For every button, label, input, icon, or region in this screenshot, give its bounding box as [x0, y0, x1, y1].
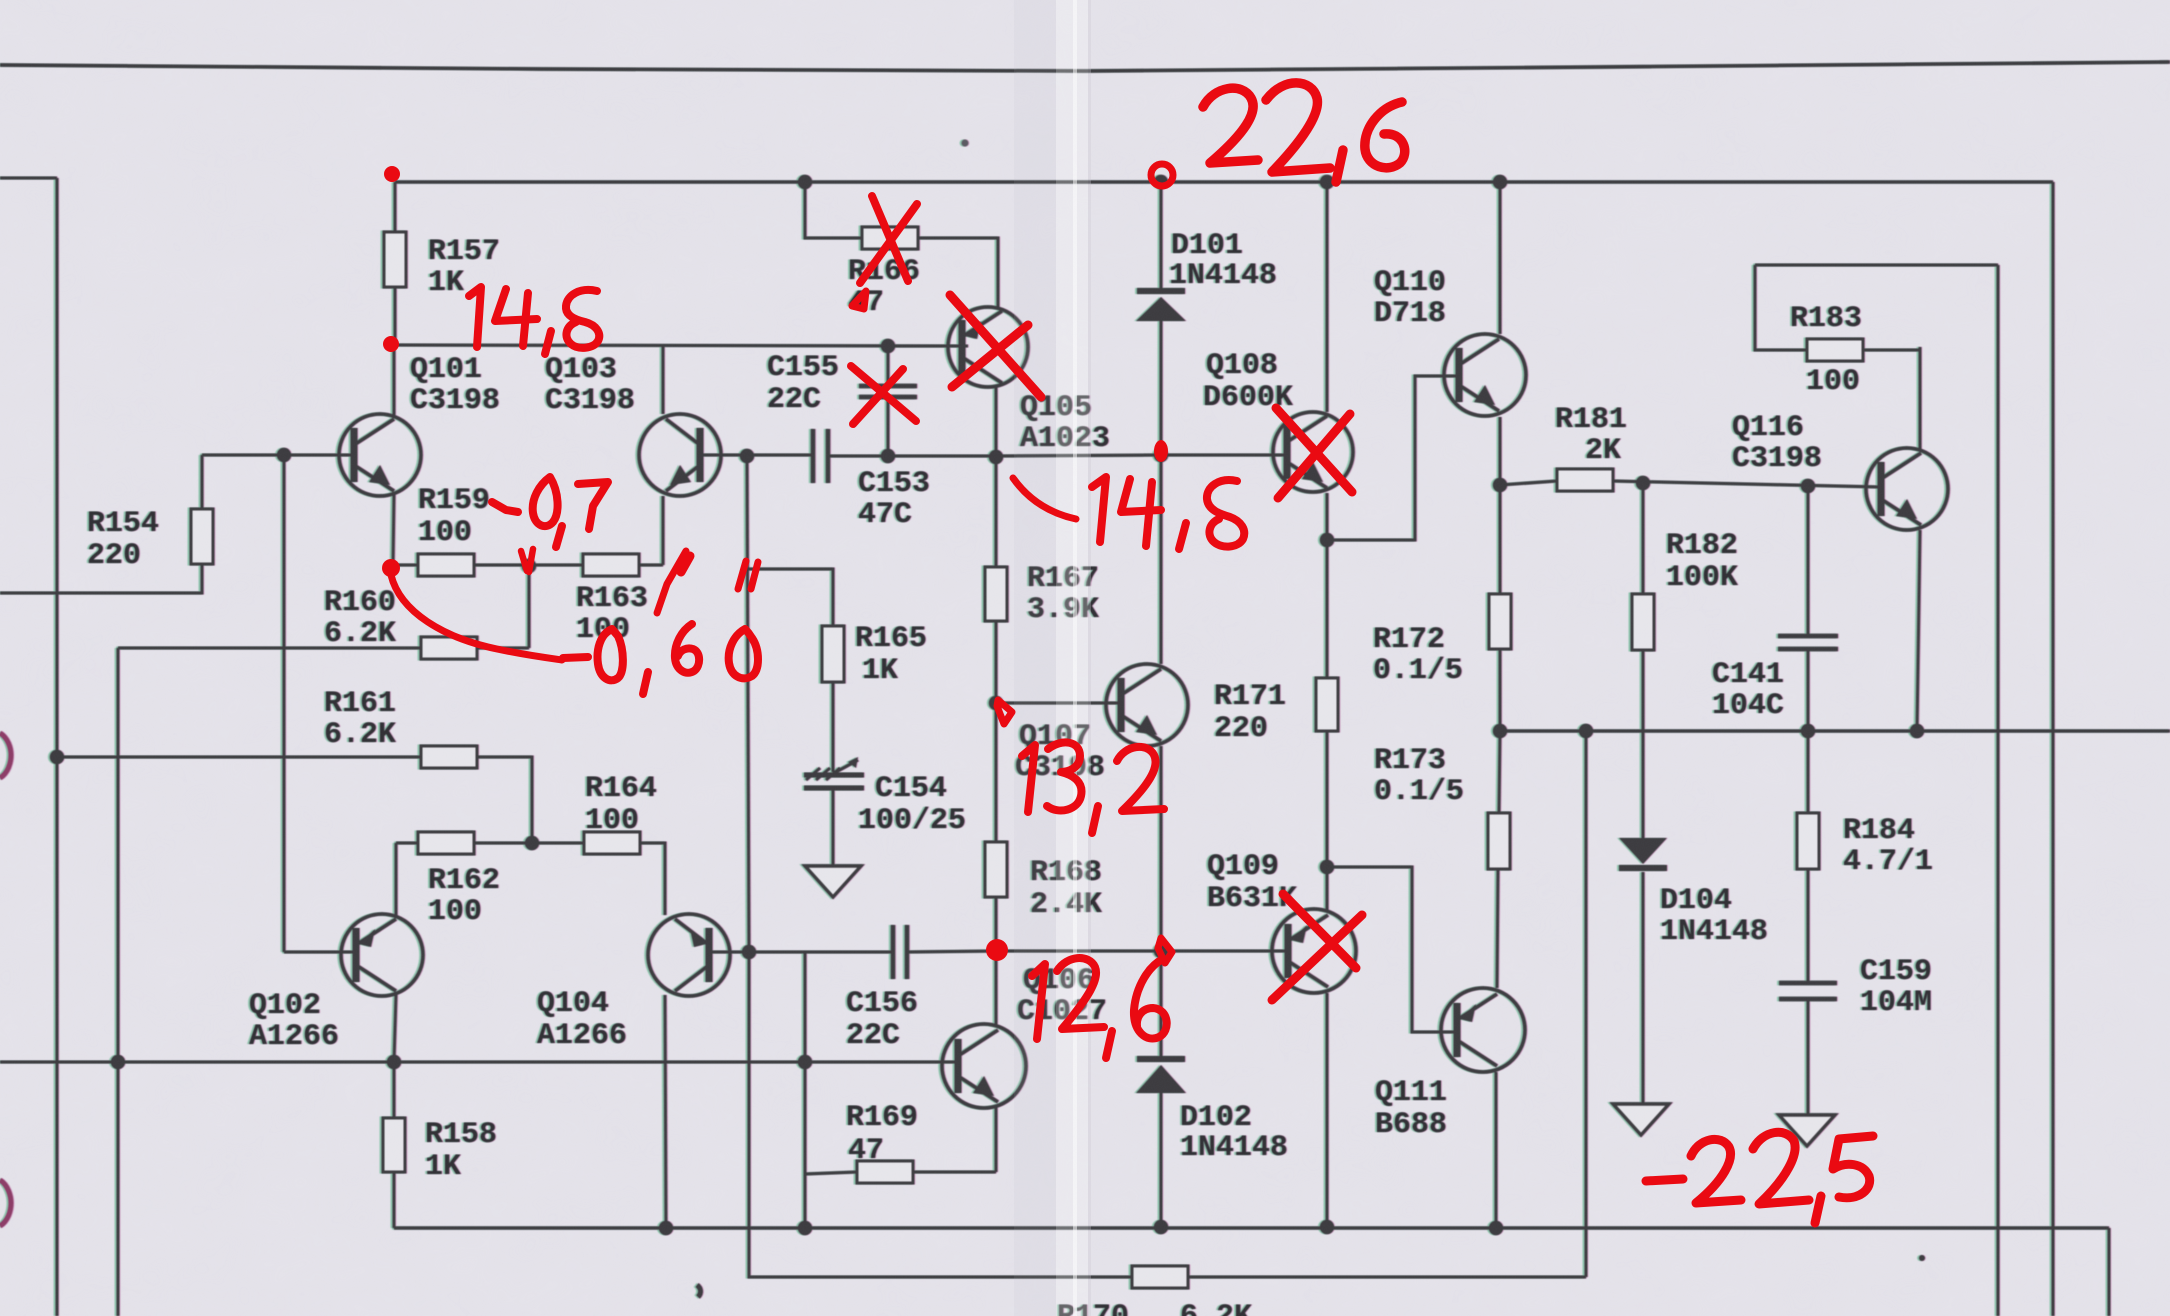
red X over R166	[872, 196, 908, 281]
wire R160 right to riser	[477, 647, 529, 650]
node output to bottom loop	[1579, 724, 1593, 738]
resistor R169	[857, 1161, 913, 1183]
wire Q101 emitter	[393, 495, 394, 565]
ground C159	[1779, 1115, 1835, 1146]
wire R165 branch	[747, 569, 833, 626]
wire R184 to C159	[1807, 869, 1810, 983]
red note 0.7	[533, 477, 558, 526]
wire bottom -22.5V rail	[394, 1226, 2109, 1229]
transistor Q101	[339, 414, 421, 496]
wire D102 anode	[1160, 1093, 1163, 1228]
wire Q101 collector	[393, 345, 396, 415]
wire R171 col	[1326, 540, 1329, 678]
red note -22.5	[1646, 1179, 1683, 1181]
resistor R154	[191, 509, 213, 564]
wire Q116 collector	[1919, 347, 1922, 449]
wire Q108emitter to Q110base link	[1327, 376, 1458, 540]
wire bias line to D102	[996, 950, 1161, 953]
connector arc left edge lower	[0, 1180, 11, 1226]
wire R171 bottom	[1326, 731, 1329, 867]
transistor Q116	[1866, 448, 1948, 530]
red blob Q106 node	[986, 939, 1008, 961]
capacitor C141	[1778, 634, 1838, 639]
wire R163 to Q103 emitter	[639, 564, 663, 567]
resistor R182	[1632, 594, 1654, 650]
wire R167 col top	[995, 457, 998, 567]
wire Q107 emitter	[1160, 746, 1163, 951]
wire Q111 emitter	[1495, 1072, 1498, 1228]
transistor Q108	[1273, 412, 1353, 492]
transistor Q105	[948, 307, 1028, 387]
resistor R167	[985, 567, 1007, 621]
wire R158 top	[393, 1062, 396, 1118]
wire node down to R160	[528, 566, 531, 648]
wire Q107 collector	[1160, 455, 1163, 664]
wire R166 drop	[805, 182, 862, 238]
speck above R166	[962, 140, 969, 147]
wire bias line left	[749, 951, 893, 954]
node R182 top node	[1636, 476, 1650, 490]
transistor Q103	[639, 414, 721, 496]
wire R165 to C154	[832, 682, 835, 772]
wire output rail	[1500, 729, 2170, 732]
red note 13.2	[1022, 745, 1035, 812]
node Q110 emitter node	[1493, 478, 1507, 492]
wire Q102 base line	[284, 951, 356, 954]
wire D104 to ground	[1642, 872, 1645, 1104]
wire R183 line left	[1755, 265, 1807, 350]
node Q110 collector at rail	[1493, 175, 1507, 189]
wire Q105 emitter drop	[995, 387, 998, 456]
resistor R166	[862, 227, 918, 249]
capacitor C153	[811, 429, 816, 483]
red note 12.6	[1032, 964, 1045, 1039]
transistor Q111	[1441, 988, 1525, 1072]
wire signal to Q108 base	[1161, 454, 1286, 457]
resistor R162	[418, 832, 474, 854]
node C155 bottom node	[881, 449, 895, 463]
node Q108 collector at rail	[1320, 175, 1334, 189]
ground D104	[1613, 1104, 1669, 1135]
wire C156 right	[907, 951, 996, 952]
node C141 at output rail	[1801, 724, 1815, 738]
red dot at R157 bottom node	[383, 336, 399, 352]
capacitor C154 electrolytic	[804, 773, 864, 778]
wire Q103-collector line y345	[395, 345, 967, 346]
node x118 at base bus	[111, 1055, 125, 1069]
wire x747 feedback riser	[747, 456, 749, 952]
node Q102 emitter node	[387, 1055, 401, 1069]
wire R169 line right corner	[913, 1171, 996, 1174]
wire R166 to Q105 collector	[918, 238, 998, 307]
wire R169 left corner	[805, 1172, 857, 1174]
node diff emitter node	[522, 559, 536, 573]
node D102 at rail	[1154, 1220, 1168, 1234]
wire R159-R163 emitter line	[393, 564, 418, 567]
wire Q102 collector riser	[395, 843, 398, 917]
wire R170 right	[1188, 1276, 1586, 1279]
red check marks at R163 right	[657, 551, 686, 613]
connector arc left edge upper	[0, 733, 11, 778]
wire R162 to node	[474, 842, 532, 845]
resistor R164	[584, 832, 640, 854]
wire Q105 base line	[888, 345, 968, 348]
node D101 at rail	[1154, 175, 1168, 189]
wire bias to Q109 base	[1161, 950, 1286, 953]
resistor R158	[383, 1118, 405, 1172]
wire D102 column	[1160, 951, 1163, 1056]
red note 22.6 top	[1203, 88, 1258, 163]
wire Q103 collector	[662, 345, 665, 414]
resistor R159	[418, 554, 474, 576]
wire x1586 drop	[1585, 731, 1588, 1277]
red blob D101 anode	[1154, 440, 1168, 462]
red note 14.8 upper-left	[469, 287, 481, 347]
wire x57 vertical	[56, 178, 59, 1316]
ground C154	[805, 866, 861, 897]
wire Q108 emitter	[1326, 493, 1329, 540]
wire R161 line	[57, 756, 421, 759]
wire D101 anode	[1160, 321, 1163, 455]
node Q111 at rail	[1489, 1221, 1503, 1235]
transistor Q106	[942, 1024, 1026, 1108]
wire rail to R157 drop	[394, 182, 397, 232]
wire Q109 collector	[1326, 867, 1329, 910]
resistor R172	[1489, 594, 1511, 649]
red tick marks at node 530	[521, 549, 533, 572]
wire R170 feedback line	[749, 952, 1132, 1277]
node Q108 emitter node	[1320, 533, 1334, 547]
red dot at R157 top node	[384, 166, 400, 182]
wire C154 to ground	[832, 788, 835, 866]
wire R154 top riser	[201, 455, 204, 509]
wire x118 riser	[117, 648, 120, 1316]
node Q104 base node	[742, 945, 756, 959]
wire top border line	[0, 62, 2170, 71]
wire R181 to Q116 base	[1613, 481, 1880, 487]
transistor Q110	[1444, 334, 1526, 416]
wire R173 col top	[1499, 731, 1500, 813]
wire R181 line left	[1500, 481, 1557, 485]
wire Q111 base stair	[1327, 867, 1456, 1032]
wire Q106 collector	[995, 951, 998, 1025]
node feedback node C153	[740, 449, 754, 463]
wire R157 bottom	[394, 287, 397, 345]
red hash marks x747	[738, 561, 758, 589]
capacitor C155	[859, 384, 917, 389]
wire Q102 emitter	[394, 995, 396, 1062]
wire R182 col top	[1642, 483, 1645, 594]
red ring at rail node	[1151, 164, 1173, 186]
resistor R163	[583, 554, 639, 576]
wire Q116 emitter	[1917, 530, 1920, 731]
transistor Q104	[648, 914, 730, 996]
node D102 top node	[1154, 944, 1168, 958]
wire Q107 base line	[996, 702, 1120, 705]
node D101 anode node	[1154, 448, 1168, 462]
wire C141 bottom	[1807, 649, 1810, 731]
wire R172 col top	[1499, 485, 1502, 594]
red pointer dash R159	[492, 502, 518, 512]
diode D102	[1137, 1056, 1185, 1062]
wire C159 to ground	[1807, 999, 1810, 1115]
resistor R184	[1797, 813, 1819, 869]
node Q107 base node	[989, 696, 1003, 710]
red X over Q108	[1276, 408, 1352, 492]
wire R158 bottom corner	[393, 1172, 396, 1228]
red note 14.8 middle	[1092, 477, 1106, 542]
wire R182 to D104	[1642, 650, 1645, 838]
wire signal to D101 node	[996, 455, 1161, 456]
node C155 top node	[881, 339, 895, 353]
node V+ at R166 drop	[798, 175, 812, 189]
wire Q104 base line	[712, 951, 749, 954]
red X over C155	[851, 366, 916, 421]
wire R160 line	[118, 647, 421, 650]
wire Q104 emitter	[665, 995, 666, 1228]
wire R172 bottom	[1499, 649, 1502, 731]
wire Q103 base	[697, 454, 747, 457]
resistor R170	[1132, 1266, 1188, 1288]
red note -0.60	[563, 657, 588, 658]
wire node to R164	[532, 842, 584, 845]
wire Q103 emitter	[662, 496, 665, 565]
diode D101	[1137, 288, 1185, 294]
red arrow at Q107 base	[997, 700, 1012, 724]
wire R167 bottom	[995, 621, 998, 703]
wire left feed corner	[0, 177, 57, 180]
resistor R181	[1557, 469, 1613, 491]
capacitor C156	[891, 925, 896, 979]
wire R183 right corner	[1863, 349, 1920, 352]
transistor Q102	[341, 914, 423, 996]
node Q116 emitter at rail	[1910, 724, 1924, 738]
node Q101 base junction	[277, 448, 291, 462]
wire Q106 emitter	[995, 1107, 998, 1172]
wire C155 lower	[887, 397, 890, 456]
resistor R161	[421, 746, 477, 768]
resistor R183	[1807, 339, 1863, 361]
resistor R157	[384, 232, 406, 287]
wire Q109 emitter	[1326, 993, 1329, 1228]
paper fold crease	[1014, 0, 1056, 1316]
wire Q108 collector	[1326, 182, 1329, 412]
wire R164 right corner	[640, 843, 665, 915]
capacitor C159	[1779, 981, 1837, 986]
wire R162 line left	[396, 842, 418, 845]
node C141 top node	[1801, 479, 1815, 493]
node Q109 collector node	[1320, 860, 1334, 874]
wire R159 to node	[474, 564, 583, 567]
wire input riser x285	[283, 455, 286, 952]
wire base bus y1062	[0, 1061, 957, 1064]
resistor R173	[1488, 813, 1510, 869]
wire bottom rail right corner	[2108, 1228, 2111, 1316]
red pointer to 14.8 mid	[1013, 478, 1076, 519]
wire C156 left drop	[804, 952, 807, 1228]
wire C155 riser	[887, 346, 890, 386]
transistor Q109	[1272, 909, 1356, 993]
red blob D102 node	[1158, 938, 1172, 963]
wire signal line C153 left	[747, 454, 813, 457]
wire V+ right corner	[2052, 182, 2055, 1316]
resistor R171	[1316, 678, 1338, 731]
wire Q101 base line	[202, 454, 357, 457]
node R161 left node	[50, 750, 64, 764]
wire R161 right corner	[477, 757, 532, 843]
resistor R168	[985, 842, 1007, 897]
transistor Q107	[1106, 664, 1188, 746]
resistor R160	[421, 637, 477, 659]
node Q106 collector node	[989, 944, 1003, 958]
red X over Q109	[1283, 894, 1356, 968]
red blob R159 node	[382, 559, 400, 577]
wire x1998 vertical	[1997, 265, 2000, 1316]
node Q105 emitter node	[989, 450, 1003, 464]
diode D104	[1619, 838, 1667, 864]
node R172 at output rail	[1493, 724, 1507, 738]
red curve pointer to -0.60	[391, 575, 562, 660]
node Q104 emitter at rail	[659, 1221, 673, 1235]
wire D101 column top	[1160, 182, 1163, 288]
wire R154 bottom to left edge	[0, 564, 202, 593]
speck bottom	[697, 1285, 701, 1297]
node R162-R164 node	[525, 836, 539, 850]
wire R173 to Q111 collector	[1497, 869, 1498, 988]
wire +22.6V power rail	[395, 180, 2053, 183]
wire Q110 collector	[1499, 182, 1502, 334]
wire R184 col top	[1807, 731, 1810, 813]
wire C153 right segment	[828, 455, 996, 458]
resistor R165	[822, 626, 844, 682]
red X over Q105	[950, 295, 1041, 397]
node Q109 at rail	[1320, 1220, 1334, 1234]
wire R168 bottom	[995, 897, 998, 951]
wire R168 col	[995, 703, 998, 842]
wire R183 loop top	[1755, 264, 1998, 267]
wire C141 col top	[1807, 486, 1810, 636]
node x805 at base bus	[798, 1055, 812, 1069]
node x805 bottom rail	[798, 1221, 812, 1235]
wire Q110 emitter	[1499, 417, 1502, 485]
speck right mid	[1919, 1255, 1925, 1261]
